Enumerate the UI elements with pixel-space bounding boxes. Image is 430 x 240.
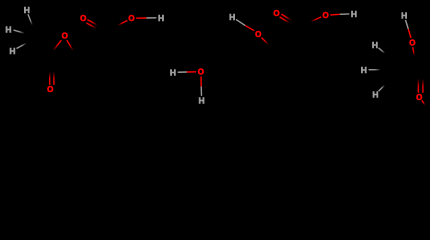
svg-text:O: O (273, 9, 279, 18)
svg-text:O: O (128, 14, 134, 23)
svg-text:H: H (372, 90, 378, 100)
svg-text:O: O (409, 38, 415, 47)
svg-text:H: H (372, 40, 378, 50)
svg-text:H: H (170, 68, 176, 78)
svg-text:O: O (47, 85, 53, 94)
svg-text:O: O (322, 11, 328, 20)
svg-text:H: H (9, 46, 15, 56)
svg-text:O: O (80, 14, 86, 23)
svg-text:H: H (5, 24, 11, 34)
svg-text:H: H (351, 9, 357, 19)
svg-text:H: H (229, 12, 235, 22)
svg-text:O: O (198, 68, 204, 77)
svg-text:H: H (24, 5, 30, 15)
svg-text:H: H (401, 11, 407, 21)
svg-text:H: H (199, 96, 205, 106)
svg-text:O: O (416, 93, 422, 102)
svg-text:O: O (62, 32, 68, 41)
svg-text:H: H (158, 13, 164, 23)
svg-text:O: O (255, 30, 261, 39)
svg-text:H: H (361, 65, 367, 75)
